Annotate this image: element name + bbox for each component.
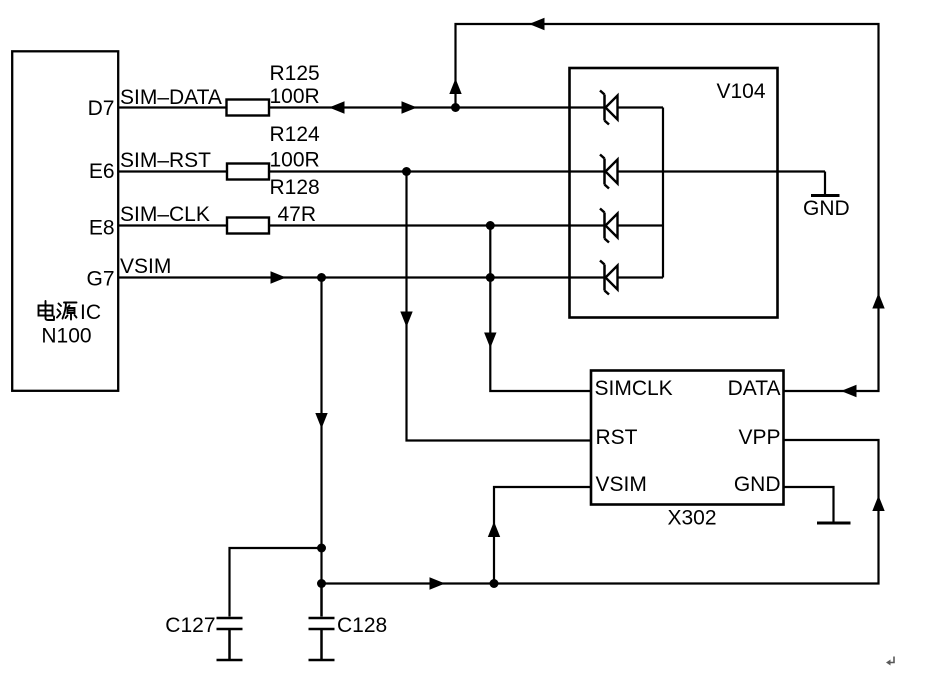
svg-text:100R: 100R — [270, 149, 320, 172]
svg-text:C127: C127 — [165, 614, 215, 637]
svg-text:R125: R125 — [270, 62, 320, 85]
svg-text:GND: GND — [803, 197, 850, 220]
svg-text:SIM–DATA: SIM–DATA — [120, 86, 222, 109]
svg-text:IC: IC — [80, 301, 101, 324]
svg-text:DATA: DATA — [728, 377, 781, 400]
svg-text:VPP: VPP — [738, 426, 780, 449]
svg-text:E6: E6 — [89, 160, 115, 183]
svg-text:SIM–RST: SIM–RST — [120, 149, 211, 172]
svg-text:VSIM: VSIM — [596, 473, 647, 496]
svg-text:GND: GND — [734, 473, 781, 496]
svg-text:X302: X302 — [667, 507, 716, 530]
svg-text:100R: 100R — [270, 85, 320, 108]
svg-text:SIMCLK: SIMCLK — [595, 377, 673, 400]
svg-text:R124: R124 — [270, 123, 321, 146]
svg-text:SIM–CLK: SIM–CLK — [120, 203, 210, 226]
svg-text:RST: RST — [596, 426, 638, 449]
svg-text:D7: D7 — [88, 97, 115, 120]
svg-text:V104: V104 — [717, 80, 766, 103]
svg-text:N100: N100 — [41, 325, 91, 348]
svg-text:E8: E8 — [89, 217, 115, 240]
svg-text:R128: R128 — [270, 176, 320, 199]
svg-text:47R: 47R — [278, 203, 317, 226]
svg-text:C128: C128 — [337, 614, 387, 637]
svg-text:G7: G7 — [86, 268, 114, 291]
svg-text:VSIM: VSIM — [120, 255, 171, 278]
